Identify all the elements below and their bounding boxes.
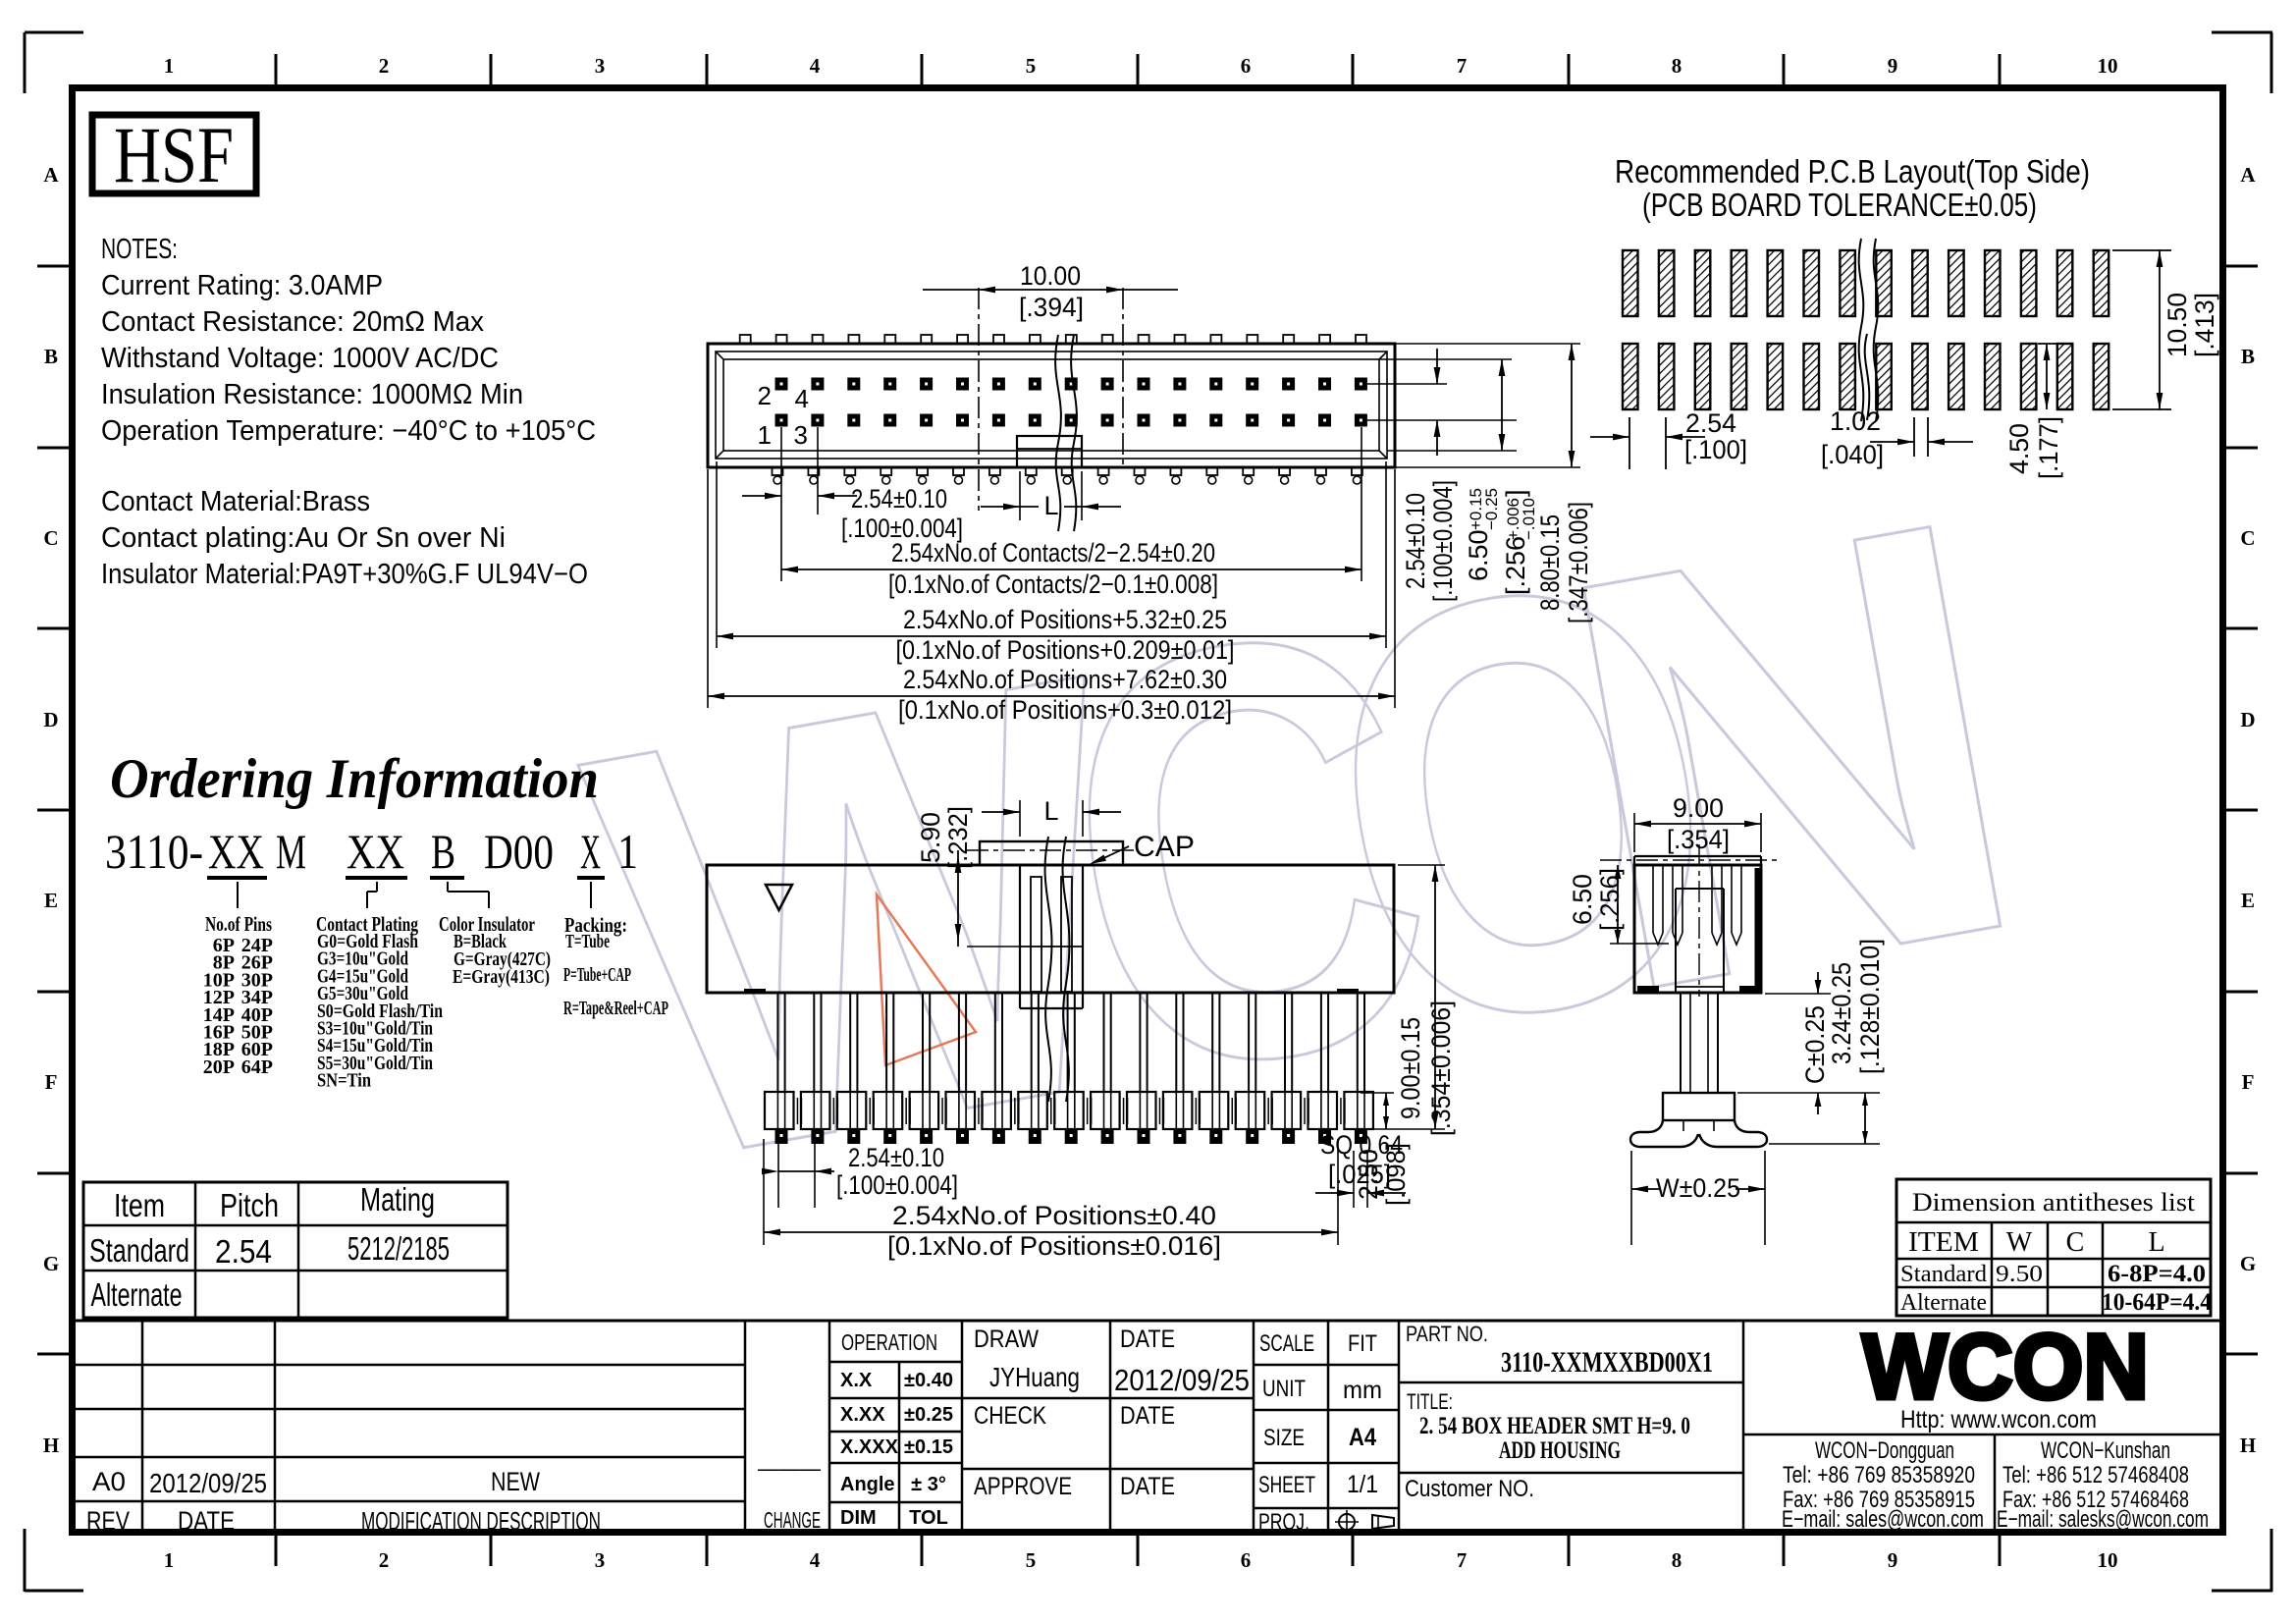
dim positions side view (763, 1139, 765, 1245)
svg-text:Contact Resistance: 20mΩ Max: Contact Resistance: 20mΩ Max (101, 306, 484, 338)
svg-text:TITLE:: TITLE: (1407, 1389, 1453, 1414)
leader lines (237, 882, 239, 908)
svg-text:WCON: WCON (1862, 1315, 2149, 1418)
svg-text:E: E (2241, 889, 2255, 912)
PCB layout break lines (1859, 239, 1879, 421)
svg-text:DIM: DIM (840, 1507, 877, 1529)
svg-text:Dimension antitheses list: Dimension antitheses list (1912, 1188, 2196, 1217)
top view polarization slot (1017, 436, 1082, 467)
side view body (707, 865, 1394, 993)
dim 3.24 end view (1769, 1143, 1880, 1145)
svg-text:1: 1 (164, 54, 175, 78)
svg-text:2: 2 (379, 1548, 390, 1572)
dim 2.54 side view (777, 1139, 779, 1208)
svg-text:4: 4 (810, 1548, 821, 1572)
dim W end view (1630, 1151, 1632, 1245)
svg-text:No.of Pins: No.of Pins (205, 912, 272, 936)
svg-text:2.54±0.10: 2.54±0.10 (1401, 493, 1430, 589)
svg-text:SHEET: SHEET (1258, 1472, 1315, 1498)
svg-text:2. 54 BOX HEADER SMT H=9. 0: 2. 54 BOX HEADER SMT H=9. 0 (1419, 1413, 1690, 1439)
svg-text:[.128±0.010]: [.128±0.010] (1855, 939, 1885, 1074)
svg-text:Contact plating:Au Or Sn over: Contact plating:Au Or Sn over Ni (101, 522, 506, 554)
svg-text:MODIFICATION DESCRIPTION: MODIFICATION DESCRIPTION (361, 1506, 601, 1536)
svg-text:3110-: 3110- (105, 824, 203, 879)
svg-text:L: L (1043, 796, 1058, 826)
svg-text:Current Rating: 3.0AMP: Current Rating: 3.0AMP (101, 270, 383, 301)
svg-text:1: 1 (617, 824, 638, 879)
svg-text:7: 7 (1457, 1548, 1468, 1572)
svg-text:G: G (43, 1252, 59, 1275)
svg-text:9: 9 (1888, 1548, 1898, 1572)
svg-text:UNIT: UNIT (1262, 1376, 1306, 1402)
end view foot (1663, 1093, 1735, 1120)
svg-text:± 3°: ± 3° (911, 1474, 946, 1495)
svg-text:64P: 64P (241, 1056, 273, 1078)
svg-text:Customer NO.: Customer NO. (1405, 1476, 1534, 1502)
svg-text:HSF: HSF (114, 110, 234, 199)
svg-text:2.54xNo.of Positions±0.40: 2.54xNo.of Positions±0.40 (892, 1201, 1216, 1230)
svg-text:CAP: CAP (1134, 831, 1195, 863)
svg-text:D: D (2240, 708, 2255, 731)
part number underlines (207, 876, 267, 880)
svg-text:X: X (580, 824, 601, 879)
svg-text:Tel: +86 769 85358920: Tel: +86 769 85358920 (1783, 1462, 1975, 1489)
svg-text:6.50: 6.50 (1568, 874, 1597, 925)
svg-text:4.50: 4.50 (2004, 423, 2034, 474)
svg-text:mm: mm (1343, 1377, 1382, 1404)
svg-text:(PCB BOARD TOLERANCE±0.05): (PCB BOARD TOLERANCE±0.05) (1642, 187, 2037, 223)
svg-text:X.XX: X.XX (840, 1404, 885, 1426)
svg-text:C: C (43, 526, 58, 550)
projection symbol (1339, 1514, 1355, 1530)
svg-text:SN=Tin: SN=Tin (317, 1070, 371, 1092)
svg-text:———: ——— (758, 1456, 821, 1481)
svg-text:[.100]: [.100] (1684, 435, 1747, 464)
top view right-side dims (1395, 343, 1580, 345)
svg-text:10: 10 (2098, 1548, 2118, 1572)
svg-text:Recommended P.C.B Layout(Top S: Recommended P.C.B Layout(Top Side) (1615, 153, 2090, 189)
dim C end view (1765, 993, 1831, 995)
svg-text:2.54: 2.54 (215, 1233, 272, 1270)
svg-text:9.00: 9.00 (1673, 793, 1724, 823)
svg-text:Alternate: Alternate (91, 1276, 183, 1313)
svg-text:8: 8 (1672, 54, 1682, 78)
svg-text:APPROVE: APPROVE (974, 1473, 1072, 1500)
svg-text:ADD HOUSING: ADD HOUSING (1499, 1437, 1621, 1464)
svg-text:C±0.25: C±0.25 (1800, 1005, 1830, 1084)
scale/unit/size/sheet/proj block (1327, 1321, 1330, 1536)
svg-text:9: 9 (1888, 54, 1898, 78)
end view center slot (1675, 889, 1677, 993)
svg-text:[.100±0.004]: [.100±0.004] (1428, 480, 1458, 602)
svg-text:X.X: X.X (840, 1370, 873, 1391)
svg-text:9.00±0.15: 9.00±0.15 (1396, 1017, 1425, 1119)
svg-text:2.54±0.10: 2.54±0.10 (851, 484, 947, 514)
svg-text:DATE: DATE (1120, 1326, 1175, 1353)
svg-text:Contact Material:Brass: Contact Material:Brass (101, 486, 370, 517)
svg-text:6: 6 (1241, 54, 1252, 78)
top view pins (775, 378, 788, 391)
end view latch fingers (1652, 865, 1654, 933)
top view inner body (716, 352, 1387, 459)
svg-text:1: 1 (758, 420, 772, 450)
svg-text:FIT: FIT (1348, 1330, 1377, 1357)
svg-text:CHECK: CHECK (974, 1402, 1046, 1430)
svg-text:Item: Item (114, 1187, 165, 1223)
svg-text:4: 4 (810, 54, 821, 78)
svg-text:SQ 0.64: SQ 0.64 (1320, 1130, 1403, 1160)
svg-text:3: 3 (595, 1548, 606, 1572)
svg-text:DRAW: DRAW (974, 1326, 1039, 1353)
HSF logo (92, 115, 256, 193)
svg-text:]: ] (1501, 489, 1530, 497)
svg-text:2: 2 (379, 54, 390, 78)
svg-text:[.354]: [.354] (1667, 825, 1730, 854)
svg-text:2.54±0.10: 2.54±0.10 (848, 1143, 944, 1172)
svg-text:20P: 20P (203, 1056, 235, 1078)
item pitch mating table (83, 1182, 507, 1318)
svg-text:E: E (44, 889, 58, 912)
svg-text:Operation Temperature: −40°C: Operation Temperature: −40°C to +105°C (101, 415, 596, 447)
svg-text:F: F (45, 1070, 58, 1094)
svg-text:[.232]: [.232] (943, 806, 973, 869)
end view center post (1680, 993, 1682, 1093)
svg-text:PROJ.: PROJ. (1258, 1509, 1309, 1536)
svg-text:[.177]: [.177] (2034, 416, 2063, 479)
svg-text:[.256]: [.256] (1595, 868, 1625, 931)
svg-text:Standard: Standard (1900, 1262, 1987, 1287)
dimension antitheses list table (1896, 1179, 2211, 1316)
svg-text:CHANGE: CHANGE (764, 1507, 821, 1533)
svg-text:7: 7 (1457, 54, 1468, 78)
corner marks (25, 31, 83, 34)
svg-text:P=Tube+CAP: P=Tube+CAP (563, 964, 631, 986)
svg-text:[.413]: [.413] (2190, 293, 2219, 357)
svg-text:REV: REV (86, 1506, 130, 1536)
svg-text:B: B (431, 824, 455, 879)
svg-text:[0.1xNo.of Positions±0.016]: [0.1xNo.of Positions±0.016] (887, 1231, 1221, 1261)
svg-text:1.02: 1.02 (1830, 406, 1881, 436)
svg-text:Withstand Voltage: 1000V AC/D: Withstand Voltage: 1000V AC/DC (101, 343, 499, 374)
svg-text:2.54xNo.of Contacts/2−2.54±0.2: 2.54xNo.of Contacts/2−2.54±0.20 (891, 538, 1215, 568)
dim 9.00 end view (1633, 813, 1635, 852)
svg-text:[.040]: [.040] (1821, 440, 1884, 469)
svg-text:3: 3 (794, 420, 808, 450)
svg-text:Mating: Mating (360, 1181, 435, 1218)
svg-text:B: B (2241, 345, 2255, 368)
svg-text:R=Tape&Reel+CAP: R=Tape&Reel+CAP (563, 998, 668, 1019)
dim 5.90 (957, 850, 959, 947)
svg-text:[.354±0.006]: [.354±0.006] (1426, 1001, 1456, 1136)
svg-text:W±0.25: W±0.25 (1656, 1173, 1740, 1203)
svg-text:W: W (2006, 1227, 2033, 1258)
svg-text:G: G (2240, 1252, 2256, 1275)
dim 4.50 pcb (2038, 343, 2058, 345)
svg-text:T=Tube: T=Tube (565, 931, 610, 952)
dim SQ 0.64 (1353, 1151, 1355, 1208)
svg-text:D: D (43, 708, 58, 731)
svg-text:1: 1 (164, 1548, 175, 1572)
dim L top view (1019, 471, 1021, 520)
svg-text:F: F (2242, 1070, 2255, 1094)
svg-text:C: C (2066, 1227, 2085, 1258)
svg-text:E=Gray(413C): E=Gray(413C) (453, 966, 550, 988)
svg-text:H: H (43, 1434, 59, 1457)
dim 10.00 (978, 288, 980, 511)
svg-text:Ordering Information: Ordering Information (110, 748, 599, 810)
svg-text:Insulation Resistance: 1000MΩ: Insulation Resistance: 1000MΩ Min (101, 379, 523, 410)
svg-text:L: L (2148, 1227, 2164, 1258)
watermark red triangle (877, 894, 976, 1065)
dim 1.02 pcb (1913, 417, 1915, 457)
svg-text:TOL: TOL (909, 1507, 948, 1529)
watermark WCON outline (556, 395, 2061, 1288)
svg-text:E−mail: salesks@wcon.com: E−mail: salesks@wcon.com (1997, 1506, 2209, 1533)
top view solder tabs top edge (740, 335, 751, 344)
svg-text:4: 4 (795, 384, 809, 413)
svg-text:M: M (276, 824, 306, 879)
side view triangle marker (766, 885, 792, 910)
svg-text:ITEM: ITEM (1908, 1227, 1979, 1258)
svg-text:1/1: 1/1 (1347, 1471, 1378, 1498)
svg-text:3.24±0.25: 3.24±0.25 (1827, 962, 1856, 1064)
svg-text:H: H (2240, 1434, 2256, 1457)
svg-text:10.50: 10.50 (2163, 293, 2192, 357)
svg-text:2.54xNo.of Positions+7.62±0.30: 2.54xNo.of Positions+7.62±0.30 (903, 665, 1227, 694)
dim positions+7.62 (707, 469, 709, 708)
svg-text:WCON−Dongguan: WCON−Dongguan (1815, 1437, 1954, 1464)
svg-text:[0.1xNo.of Positions+0.3±0.012: [0.1xNo.of Positions+0.3±0.012] (898, 695, 1232, 725)
svg-text:Insulator Material:PA9T+30%G.F: Insulator Material:PA9T+30%G.F UL94V−O (101, 559, 588, 590)
svg-text:Alternate: Alternate (1900, 1290, 1987, 1316)
side view cap (980, 841, 1123, 865)
svg-text:PART NO.: PART NO. (1406, 1322, 1488, 1346)
svg-text:6: 6 (1241, 1548, 1252, 1572)
svg-text:2: 2 (758, 381, 772, 410)
dim contacts/2 (1361, 427, 1362, 581)
svg-text:NEW: NEW (491, 1467, 540, 1496)
svg-text:[.256: [.256 (1501, 536, 1530, 595)
wcon logo block (1742, 1321, 1745, 1536)
dim positions+5.32 (716, 461, 718, 648)
svg-text:NOTES:: NOTES: (101, 234, 178, 265)
side view legs and feet (776, 993, 778, 1093)
svg-text:Standard: Standard (89, 1232, 189, 1269)
side view small feet under body ends (744, 989, 766, 994)
PCB layout pads top row (1623, 250, 1638, 316)
dim 2.54 pitch top view (780, 427, 782, 581)
side view center slot (1019, 865, 1021, 1008)
dim 2.54 pcb (1629, 417, 1630, 469)
svg-text:A0: A0 (92, 1467, 126, 1496)
dim L side view (1019, 800, 1021, 837)
svg-text:8: 8 (1672, 1548, 1682, 1572)
svg-text:DATE: DATE (1120, 1402, 1175, 1430)
svg-text:3: 3 (595, 54, 606, 78)
svg-text:Pitch: Pitch (220, 1187, 279, 1223)
dim 9.00 side view (1398, 864, 1445, 866)
svg-text:2.54: 2.54 (1685, 408, 1736, 438)
svg-text:2.54xNo.of Positions+5.32±0.25: 2.54xNo.of Positions+5.32±0.25 (903, 605, 1227, 634)
svg-text:SIZE: SIZE (1263, 1425, 1305, 1451)
svg-text:[0.1xNo.of Contacts/2−0.1±0.00: [0.1xNo.of Contacts/2−0.1±0.008] (888, 569, 1218, 599)
svg-text:10.00: 10.00 (1020, 261, 1081, 291)
svg-text:DATE: DATE (178, 1506, 235, 1536)
top view solder tabs bottom edge (773, 467, 783, 475)
svg-text:2012/09/25: 2012/09/25 (1114, 1363, 1250, 1397)
svg-text:L: L (1043, 491, 1058, 520)
PCB layout pads bottom row (1623, 344, 1638, 409)
svg-text:5: 5 (1026, 54, 1037, 78)
end view body corner feet (1637, 986, 1659, 993)
svg-text:D00: D00 (484, 824, 554, 879)
end view body (1634, 865, 1761, 993)
svg-text:5212/2185: 5212/2185 (347, 1230, 450, 1267)
part no / title block (1399, 1381, 1743, 1384)
dim 2.50 side view (1361, 1092, 1394, 1094)
svg-text:A: A (43, 163, 59, 187)
dim 10.50 pcb (2112, 249, 2171, 251)
svg-text:6.50: 6.50 (1464, 529, 1493, 581)
svg-text:Angle: Angle (840, 1474, 895, 1495)
svg-text:C: C (2240, 526, 2255, 550)
revision table (141, 1321, 144, 1536)
svg-text:[.347±0.006]: [.347±0.006] (1564, 502, 1593, 623)
svg-text:10: 10 (2098, 54, 2118, 78)
dim 6.50 end view (1617, 865, 1619, 944)
side view break lines (1045, 837, 1070, 1102)
svg-text:E−mail: sales@wcon.com: E−mail: sales@wcon.com (1782, 1506, 1984, 1533)
svg-text:8.80±0.15: 8.80±0.15 (1535, 514, 1565, 611)
top view break lines (1055, 335, 1077, 531)
svg-text:OPERATION: OPERATION (841, 1329, 937, 1355)
svg-text:[.394]: [.394] (1019, 293, 1084, 322)
svg-text:[0.1xNo.of Positions+0.209±0.0: [0.1xNo.of Positions+0.209±0.01] (896, 635, 1235, 665)
svg-text:X.XXX: X.XXX (840, 1436, 899, 1458)
svg-text:±0.25: ±0.25 (904, 1404, 953, 1426)
svg-text:WCON−Kunshan: WCON−Kunshan (2041, 1437, 2170, 1464)
svg-text:5.90: 5.90 (916, 812, 945, 863)
svg-text:SCALE: SCALE (1259, 1330, 1314, 1357)
svg-text:A: A (2240, 163, 2256, 187)
svg-text:B: B (44, 345, 58, 368)
svg-text:3110-XXMXXBD00X1: 3110-XXMXXBD00X1 (1501, 1346, 1713, 1379)
svg-text:Tel: +86 512 57468408: Tel: +86 512 57468408 (2002, 1462, 2189, 1489)
svg-text:DATE: DATE (1120, 1473, 1175, 1500)
svg-text:5: 5 (1026, 1548, 1037, 1572)
svg-text:Http: www.wcon.com: Http: www.wcon.com (1900, 1406, 2097, 1434)
svg-text:9.50: 9.50 (1996, 1262, 2043, 1287)
top view outer body (708, 344, 1395, 467)
operation tolerance table (829, 1361, 962, 1364)
ruler ticks and numbers (275, 54, 278, 84)
svg-text:JYHuang: JYHuang (989, 1362, 1080, 1392)
svg-text:6-8P=4.0: 6-8P=4.0 (2108, 1261, 2206, 1287)
svg-text:A4: A4 (1349, 1424, 1376, 1451)
svg-text:±0.15: ±0.15 (904, 1436, 953, 1458)
svg-text:±0.40: ±0.40 (904, 1370, 953, 1391)
svg-text:10-64P=4.4: 10-64P=4.4 (2102, 1289, 2212, 1316)
draw/check/approve block (961, 1321, 964, 1536)
svg-text:XX: XX (347, 824, 404, 879)
title block top line (73, 1320, 2223, 1323)
svg-text:XX: XX (208, 824, 264, 879)
svg-text:[.100±0.004]: [.100±0.004] (836, 1170, 958, 1200)
svg-text:2012/09/25: 2012/09/25 (149, 1468, 267, 1498)
svg-text:−0.25: −0.25 (1482, 488, 1501, 530)
